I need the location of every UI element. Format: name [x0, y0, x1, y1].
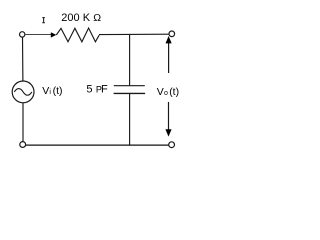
svg-text:(t): (t) [169, 86, 179, 98]
svg-text:o: o [164, 90, 168, 97]
terminal BR [169, 142, 175, 148]
terminal TL [20, 32, 25, 37]
svg-text:(t): (t) [53, 85, 63, 97]
wire capacitor branch lower [129, 93, 131, 145]
wire capacitor branch upper [129, 35, 131, 86]
wire [25, 34, 51, 36]
arrow Vo minus [168, 102, 170, 130]
terminal BL [20, 142, 26, 148]
svg-text:V: V [42, 85, 49, 97]
arrow Vo plus [168, 43, 170, 74]
svg-text:Ω: Ω [93, 12, 101, 24]
svg-text:5: 5 [86, 84, 92, 96]
resistor R1 [56, 28, 99, 42]
current arrow [51, 32, 57, 37]
terminal TR [169, 31, 175, 37]
wire left rail lower [22, 103, 24, 142]
source sine [14, 89, 32, 96]
wire [99, 33, 169, 35]
svg-text:200 K: 200 K [61, 12, 90, 24]
svg-text:i: i [49, 89, 51, 96]
source V1 [12, 81, 34, 103]
capacitor C1 top plate [114, 85, 145, 87]
wire left rail upper [22, 37, 24, 81]
svg-text:V: V [157, 86, 164, 98]
svg-text:F: F [101, 84, 108, 96]
label I [42, 18, 45, 23]
capacitor C1 bottom plate [114, 92, 146, 94]
wire bottom [26, 144, 169, 146]
